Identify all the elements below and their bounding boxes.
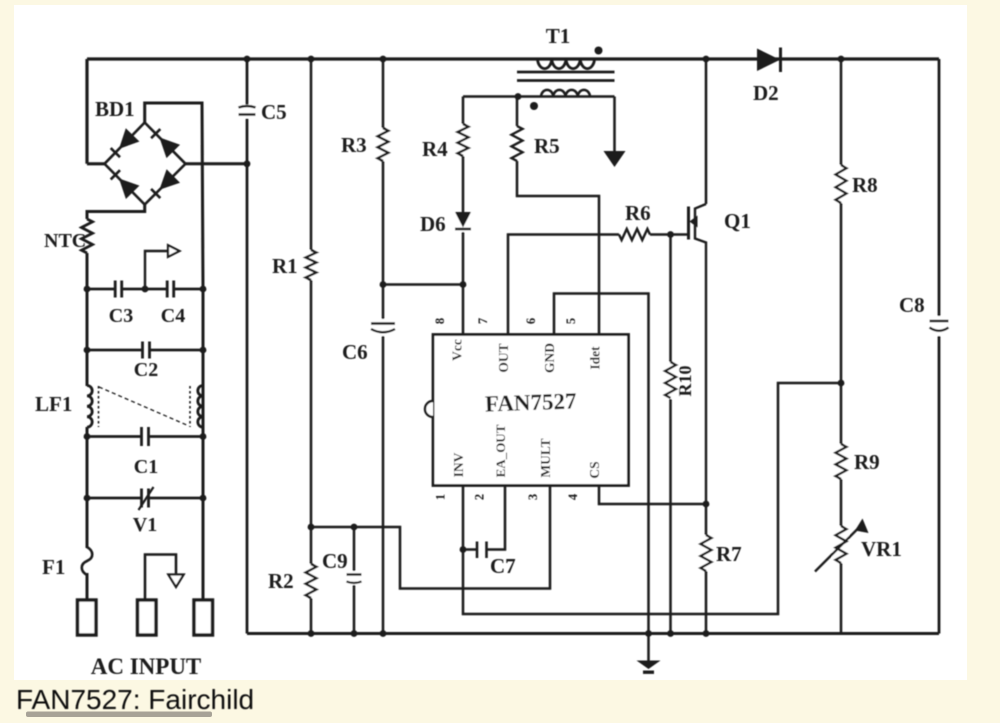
svg-text:R3: R3 <box>341 133 367 157</box>
svg-text:C1: C1 <box>134 456 158 478</box>
svg-text:2: 2 <box>473 494 487 500</box>
svg-text:R7: R7 <box>716 542 742 566</box>
svg-text:OUT: OUT <box>496 343 511 372</box>
svg-text:BD1: BD1 <box>95 97 135 121</box>
svg-text:LF1: LF1 <box>35 392 72 416</box>
svg-text:EA_OUT: EA_OUT <box>493 424 508 477</box>
svg-text:R1: R1 <box>272 254 298 278</box>
svg-text:R10: R10 <box>675 366 695 397</box>
svg-text:C6: C6 <box>342 340 368 364</box>
svg-text:3: 3 <box>526 494 540 500</box>
svg-text:AC INPUT: AC INPUT <box>91 654 202 679</box>
svg-text:R8: R8 <box>852 173 878 197</box>
svg-text:6: 6 <box>524 318 538 324</box>
svg-text:4: 4 <box>566 493 580 500</box>
svg-text:7: 7 <box>476 318 490 324</box>
svg-text:8: 8 <box>433 318 447 324</box>
svg-text:NTC: NTC <box>44 230 86 252</box>
svg-text:R9: R9 <box>854 450 880 474</box>
svg-text:Vcc: Vcc <box>450 339 465 361</box>
svg-text:R2: R2 <box>268 569 294 593</box>
svg-text:C5: C5 <box>261 100 287 124</box>
svg-text:C9: C9 <box>322 549 348 573</box>
svg-text:5: 5 <box>564 318 578 324</box>
svg-text:MULT: MULT <box>538 438 553 477</box>
svg-text:Q1: Q1 <box>724 209 751 233</box>
svg-text:C7: C7 <box>490 554 516 578</box>
svg-text:R6: R6 <box>625 201 651 225</box>
svg-text:1: 1 <box>434 494 448 500</box>
svg-text:R5: R5 <box>534 134 560 158</box>
svg-text:D2: D2 <box>753 81 779 105</box>
svg-text:D6: D6 <box>420 212 446 236</box>
svg-text:T1: T1 <box>546 24 571 48</box>
svg-text:C3: C3 <box>109 305 133 327</box>
svg-text:C8: C8 <box>899 293 925 317</box>
svg-text:INV: INV <box>451 452 466 477</box>
svg-text:GND: GND <box>542 343 557 373</box>
svg-text:R4: R4 <box>422 137 448 161</box>
svg-text:FAN7527: Fairchild: FAN7527: Fairchild <box>16 684 254 715</box>
svg-text:FAN7527: FAN7527 <box>485 388 577 416</box>
svg-text:V1: V1 <box>133 514 157 536</box>
svg-text:VR1: VR1 <box>861 537 902 561</box>
svg-text:F1: F1 <box>42 555 65 579</box>
svg-text:C2: C2 <box>134 359 158 381</box>
svg-text:Idet: Idet <box>588 346 603 370</box>
svg-text:CS: CS <box>587 461 602 478</box>
svg-text:C4: C4 <box>161 305 185 327</box>
